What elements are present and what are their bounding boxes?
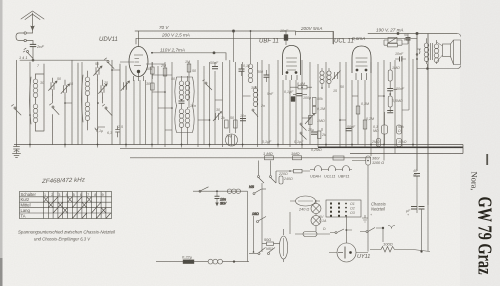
table X marks row Lang xyxy=(53,208,106,213)
pilot lamp xyxy=(311,200,321,232)
antenna coupling loop xyxy=(16,32,33,44)
resistor heater row third xyxy=(333,156,344,160)
IF transformer 1 lower secondary xyxy=(185,107,190,145)
capacitor 50nF right xyxy=(387,86,397,94)
oscillator coil Lb xyxy=(253,86,258,107)
negative feedback block xyxy=(384,38,402,47)
junction dots sprinkle xyxy=(29,30,418,253)
IF transformer 1 secondary coil xyxy=(185,76,190,101)
wire left drop xyxy=(16,60,18,144)
rail 200V 5mA xyxy=(296,32,334,45)
chassis bus line xyxy=(14,144,463,146)
coil L1 lower xyxy=(33,100,38,131)
ground xyxy=(13,154,21,158)
resistor 220 xyxy=(279,176,283,184)
coupling capacitor 0,1 xyxy=(239,64,245,76)
switch S4 xyxy=(103,105,113,116)
tube UDV11 envelope xyxy=(129,31,148,81)
capacitor at 243 xyxy=(240,119,246,121)
resistor R 2k xyxy=(225,120,229,128)
mains bus heavy xyxy=(318,146,463,148)
chassis netzteil capacitor xyxy=(411,205,428,252)
oscillator coil assembly near UBF11 xyxy=(320,68,341,88)
heater filament UBF11 xyxy=(337,166,352,172)
wire ties mid band xyxy=(65,60,409,130)
capacitor 10nF tone xyxy=(395,57,406,62)
wire junction to row xyxy=(20,59,107,61)
bus tick dots xyxy=(29,144,414,146)
mains filter capacitor 0,22u xyxy=(156,260,194,264)
wires vertical group A xyxy=(53,60,79,144)
speaker terminal hooks xyxy=(417,34,461,70)
electrolytic 40uF on 417 line xyxy=(414,174,420,214)
switch S6 xyxy=(252,109,258,117)
potentiometer 1M volume xyxy=(305,114,315,125)
resistor 0,1M vertical xyxy=(312,107,316,114)
frame wire xyxy=(36,64,45,131)
capacitor 100pF xyxy=(293,94,307,96)
trimmer capacitor CT4 xyxy=(99,80,108,98)
bus junction ticks xyxy=(30,145,413,149)
bus third xyxy=(350,153,463,155)
resistor 50k block right xyxy=(397,125,402,134)
coil shield bracket L2 xyxy=(82,75,84,122)
rail 200V 2,5mA xyxy=(136,38,417,44)
switch power aux xyxy=(257,217,267,223)
heater filament UCL11 xyxy=(323,166,337,172)
resistor bottom 10k xyxy=(397,139,402,147)
capacitor 5nF to ground xyxy=(14,145,20,154)
fuse xyxy=(295,232,330,237)
resistor 50k vertical xyxy=(312,98,316,106)
rail 70V xyxy=(135,30,296,32)
extra vertical wires xyxy=(82,32,347,253)
resistor 1M heater b xyxy=(293,156,302,160)
barretter UR110 xyxy=(279,229,287,262)
resistor 100 ohm zigzag xyxy=(370,247,430,253)
trimmer capacitor CT1 xyxy=(49,78,58,95)
resistor chain 1M right xyxy=(388,62,392,86)
resistor UCL grid leak xyxy=(363,120,367,129)
resistor 0,1M block xyxy=(382,112,388,145)
jack contacts xyxy=(416,49,421,55)
antenna xyxy=(21,11,44,33)
vertical wire mesh mid-right xyxy=(283,34,428,206)
mains filter coil xyxy=(194,240,249,264)
ground mark chassis xyxy=(362,215,368,222)
NS switch xyxy=(253,189,266,195)
rail 190V 27mA xyxy=(368,32,457,34)
tiny value labels speckle xyxy=(37,29,418,231)
switch S5 xyxy=(203,80,213,91)
power switch a xyxy=(249,248,266,255)
barretter horizontal xyxy=(290,196,320,206)
coil L2 lower xyxy=(85,99,90,130)
IF transformer 1 lower primary xyxy=(179,107,184,145)
coil L1 upper xyxy=(33,74,38,100)
capacitor 10nF anode UBF xyxy=(284,31,288,45)
resistor 1M heater a xyxy=(265,156,274,160)
capacitor 2nF osc xyxy=(264,70,270,82)
wire from heaters down xyxy=(262,171,276,252)
resistor R b xyxy=(234,120,238,128)
mains plug contacts xyxy=(388,226,395,229)
electrolytic can 25/50uF xyxy=(226,134,238,146)
tube UCL11 envelope xyxy=(352,46,371,80)
resistor 0,5M right xyxy=(388,94,392,112)
heater chain resistor xyxy=(276,169,310,173)
resistor Rk1 xyxy=(151,62,155,79)
scanner edge left xyxy=(0,0,3,286)
tube UBF11 envelope xyxy=(283,46,301,81)
resistor bottom 2M xyxy=(377,139,381,147)
wires vertical group B xyxy=(98,60,127,144)
resistor Rg1 xyxy=(163,68,167,76)
resistor anode horizontal xyxy=(290,86,312,89)
output transformer secondary xyxy=(434,40,439,64)
switch tone b xyxy=(259,171,277,183)
TA input wire xyxy=(193,191,248,240)
capacitor 50nF UCL grid xyxy=(346,129,352,131)
TA coupling coil xyxy=(227,189,240,193)
output transformer primary xyxy=(424,38,429,64)
resistor UCL cathode xyxy=(356,106,360,114)
switch S8 xyxy=(300,132,307,140)
capacitor 50nF top xyxy=(212,62,218,69)
heater wire row xyxy=(130,157,371,159)
resistor Rk2 xyxy=(151,83,155,90)
bus segment second xyxy=(120,147,318,149)
horizontal connector row under tube UDV11 xyxy=(120,62,172,75)
electrolytic 50uF top right xyxy=(402,34,411,45)
heater filament UDV11 xyxy=(310,166,323,172)
trimmer capacitor CT6 xyxy=(121,81,130,91)
output transformer core xyxy=(431,43,433,60)
resistor 50ohm label block xyxy=(262,242,280,245)
switch S3 top xyxy=(105,58,115,69)
wave-range switch left xyxy=(12,105,22,116)
TA series capacitor xyxy=(215,191,220,205)
rectifier tube UY11 xyxy=(329,243,368,262)
resistor 360/1100 xyxy=(352,156,370,252)
right bus edge vertical xyxy=(462,145,464,154)
coil L2 upper xyxy=(85,71,90,99)
padder components row xyxy=(95,126,120,137)
table X marks row Kurz xyxy=(44,197,92,202)
IF transformer 1 primary coil xyxy=(179,76,184,101)
switch S2 xyxy=(50,104,60,115)
capacitor 2nF xyxy=(30,44,36,60)
capacitor mid small xyxy=(387,111,393,113)
coil shield bracket L1 xyxy=(30,77,32,124)
switch table xyxy=(20,192,112,219)
IF transformer 1 tuning capacitor xyxy=(179,99,185,107)
electrolytic 25uF + resistor 2k xyxy=(311,128,322,139)
wire xyxy=(29,62,31,145)
rail 110V 2,7mA xyxy=(152,52,226,60)
trimmer capacitor CT5 xyxy=(213,112,222,122)
power switch b xyxy=(268,248,276,255)
oscillator coil La xyxy=(248,31,253,83)
terminal block xyxy=(326,200,361,217)
resistor Rg2 xyxy=(187,64,191,72)
table X marks row TA xyxy=(58,213,111,219)
switch S-ant 141 xyxy=(23,48,33,58)
trimmer capacitor CT2 xyxy=(61,80,70,98)
switch tone a xyxy=(258,176,265,184)
vertical wire mesh mid-left xyxy=(134,31,278,145)
print mark right xyxy=(486,154,488,165)
switch S7 xyxy=(300,123,307,131)
capacitor 0,1uF xyxy=(291,97,295,102)
trimmer capacitor CT3 xyxy=(94,62,103,80)
IFT1 shield brackets xyxy=(175,77,194,133)
TA switch xyxy=(199,187,209,192)
switch heater circuit xyxy=(330,229,352,234)
table X marks row Mittel xyxy=(48,202,101,207)
speaker xyxy=(437,40,461,65)
switch voltage selector xyxy=(360,227,384,242)
